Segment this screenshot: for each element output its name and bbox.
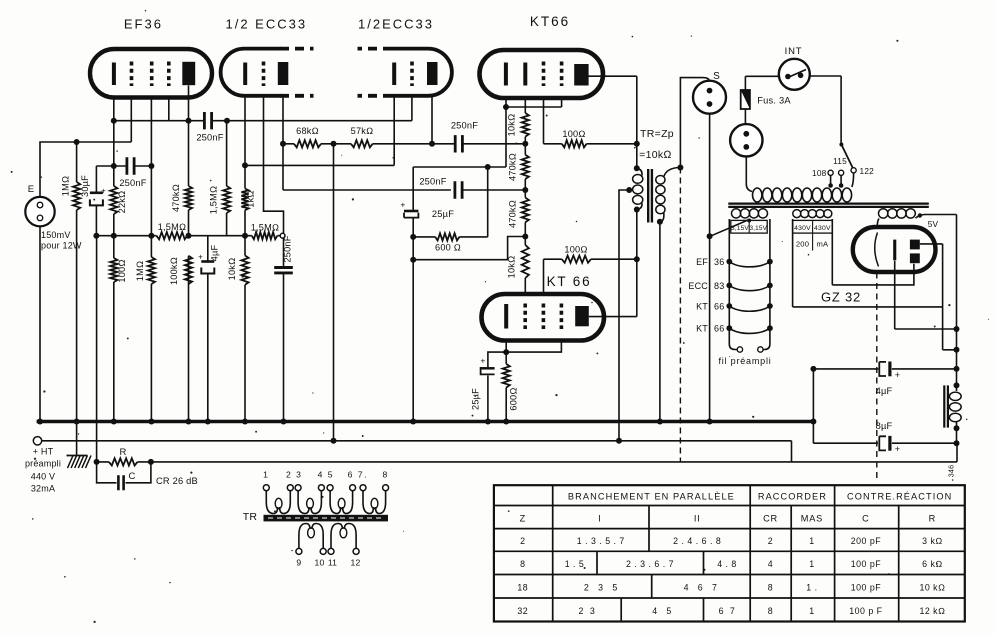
svg-text:+ HT: + HT — [33, 447, 54, 457]
resistor 100 ohm (KT66a screen) zigzag — [562, 140, 587, 147]
svg-text:32: 32 — [517, 606, 528, 616]
svg-text:250nF: 250nF — [283, 235, 293, 262]
svg-text:=10kΩ: =10kΩ — [639, 149, 672, 161]
svg-text:+: + — [198, 253, 203, 262]
resistor 1.5M vertical zigzag — [223, 186, 230, 213]
connection table frame — [494, 485, 965, 621]
resistor 470k zigzag — [185, 186, 192, 210]
electrolytic 25uF (KT66b) wire — [488, 352, 506, 421]
+HT line — [42, 441, 792, 462]
svg-text:470kΩ: 470kΩ — [508, 153, 518, 181]
svg-text:250nF: 250nF — [196, 133, 223, 143]
B+ dropper rail down to HT line — [333, 144, 335, 441]
svg-text:8: 8 — [768, 583, 773, 593]
tube 1/2 ECC33 (second) envelope dashed part — [358, 49, 393, 96]
430V label box — [793, 220, 833, 233]
resistor 22k zigzag — [110, 186, 117, 214]
svg-text:BRANCHEMENT EN PARALLÈLE: BRANCHEMENT EN PARALLÈLE — [568, 492, 735, 502]
node KT66a cathode — [503, 104, 509, 110]
KT66b anode — [575, 306, 589, 326]
EF36 grid 3 (dotted) — [167, 62, 171, 87]
svg-text:INT: INT — [785, 46, 803, 57]
TR primary section 2 — [295, 485, 301, 491]
svg-text:3 kΩ: 3 kΩ — [922, 536, 943, 546]
GZ32 filament arc — [875, 233, 879, 267]
svg-text:1: 1 — [263, 470, 269, 480]
svg-text:440 V: 440 V — [31, 472, 56, 482]
switch INT lever — [788, 70, 806, 78]
svg-text:E: E — [28, 184, 35, 195]
TR primary section 4 — [360, 485, 366, 491]
KT66a screen pin wire — [544, 98, 562, 144]
KT66b beam plates (dotted) — [560, 304, 564, 330]
5V winding right end to HT rail — [916, 215, 957, 386]
svg-text:115: 115 — [833, 156, 847, 166]
electrolytic 25uF (KT66a) — [404, 210, 418, 213]
TR core bar — [264, 515, 389, 522]
node 413-ground — [410, 419, 416, 425]
switch INT circle — [779, 59, 810, 90]
svg-text:250nF: 250nF — [119, 178, 146, 188]
svg-text:3,15V: 3,15V — [749, 225, 767, 232]
svg-text:TR=Zp: TR=Zp — [640, 128, 674, 140]
svg-text:préampli: préampli — [25, 459, 61, 469]
ECC33a plate rail — [283, 96, 451, 190]
electrolytic 30uF — [90, 192, 103, 195]
resistor 1M (second) zigzag — [148, 257, 155, 284]
coupling capacitor 250nF (to KT66b grid) line y=190 — [455, 181, 462, 198]
TR primary section 1 — [263, 485, 269, 491]
speaker line to socket S — [680, 78, 709, 168]
tap 108 wire — [830, 175, 832, 185]
svg-text:1/2 ECC33: 1/2 ECC33 — [226, 17, 308, 32]
node 250nF ground — [281, 419, 287, 425]
EF36 grid 1 (dotted) — [130, 62, 134, 87]
input jack E — [25, 197, 54, 226]
wire EF36 grid1 down to input wire — [130, 96, 132, 142]
output transformer primary loops — [633, 175, 643, 184]
svg-text:100 p F: 100 p F — [849, 606, 882, 616]
capacitor C wire — [97, 462, 151, 483]
secondary ground wire — [659, 222, 661, 421]
resistor 1.5M horizontal-2 zigzag — [252, 232, 277, 239]
svg-text:4µF: 4µF — [876, 386, 893, 396]
svg-text:RACCORDER: RACCORDER — [758, 492, 827, 502]
node 600ohm rise — [485, 164, 491, 170]
svg-text:30µF: 30µF — [80, 175, 90, 197]
node R right — [148, 459, 154, 465]
svg-text:6 kΩ: 6 kΩ — [922, 559, 943, 569]
svg-text:C: C — [862, 514, 869, 524]
wire socket to primary — [746, 157, 752, 192]
output transformer secondary bottom exit — [660, 213, 664, 222]
node 25uF-600 — [410, 234, 416, 240]
node grid terminal (open) — [280, 233, 285, 238]
resistor 470k lower wire — [524, 190, 526, 237]
ECC33a grid stair wire — [264, 96, 284, 233]
wire input bottom pin to ground bus — [39, 226, 41, 421]
tube GZ32 envelope — [853, 227, 936, 272]
node heater CT on S wire — [707, 233, 713, 239]
power transformer core — [728, 204, 929, 207]
tube 1/2 ECC33 (first) envelope dashed part — [280, 49, 314, 96]
svg-text:2 3: 2 3 — [579, 606, 596, 616]
node rail-plate — [186, 233, 192, 239]
svg-text:fil préampli: fil préampli — [718, 356, 771, 366]
svg-text:57kΩ: 57kΩ — [351, 126, 374, 136]
ECC33b plate pin wire — [431, 96, 433, 144]
primary tap to HT — [626, 187, 632, 193]
KT66a beam plates (dotted) — [560, 62, 564, 87]
cathode wire y=167 — [413, 166, 506, 168]
node 68k-57k junction (B+ feed) — [331, 141, 337, 147]
ground bus (thick) — [37, 420, 814, 423]
svg-text:4 6 7: 4 6 7 — [684, 583, 718, 593]
svg-text:4 . 8: 4 . 8 — [717, 559, 737, 569]
svg-text:2: 2 — [520, 536, 525, 546]
wire 100ohm to plate rail — [587, 143, 637, 145]
GZ32 cathode bar — [893, 240, 896, 261]
wire input top pin to grid line — [40, 142, 131, 197]
KT66a grid pin + 10k wire — [524, 98, 526, 144]
TR secondary section 2 — [328, 548, 334, 554]
svg-text:1,5MΩ: 1,5MΩ — [251, 223, 279, 233]
resistor 100 ohm zigzag — [110, 258, 117, 282]
svg-text:8: 8 — [382, 470, 388, 480]
input jack E pin top — [37, 202, 43, 208]
resistor 57k zigzag — [351, 140, 373, 147]
ECC33a cathode pin wire — [244, 96, 246, 165]
svg-text:4 5: 4 5 — [652, 606, 672, 616]
resistor 600 ohm zigzag — [435, 233, 459, 240]
svg-text:+: + — [400, 200, 405, 210]
svg-text:1kΩ: 1kΩ — [246, 190, 256, 207]
svg-text:25µF: 25µF — [471, 388, 481, 410]
EF36 screen rail x=151.4 — [150, 97, 152, 421]
secondary 430V winding loops — [793, 210, 801, 218]
svg-text:10kΩ: 10kΩ — [507, 114, 517, 137]
tap 115 wire — [840, 175, 842, 185]
wire INT left to fuse — [745, 76, 779, 90]
electrolytic 25uF (KT66a) wire — [412, 167, 414, 237]
svg-text:+: + — [480, 356, 485, 366]
resistor 470k upper wire — [524, 144, 526, 190]
svg-text:1 . 5: 1 . 5 — [565, 559, 585, 569]
resistor 1.5M horizontal-1 zigzag — [157, 232, 188, 239]
EF36 anode — [182, 62, 195, 85]
node y166 right — [148, 163, 154, 169]
svg-text:12 kΩ: 12 kΩ — [919, 606, 945, 616]
node input-ground — [37, 419, 43, 425]
tap terminal 115 — [839, 170, 844, 175]
resistor 1M (input grid leak) wire — [76, 142, 78, 421]
node cathode y120.7 — [111, 118, 117, 124]
svg-text:KT: KT — [696, 324, 708, 334]
node y259.7 — [410, 257, 416, 263]
svg-text:200: 200 — [796, 240, 809, 249]
svg-text:430V: 430V — [794, 225, 811, 232]
svg-text:1 .: 1 . — [806, 583, 817, 593]
resistor 600 ohm (KT66b) wire — [505, 352, 507, 421]
wire fuse to mains socket — [744, 109, 746, 124]
node 1M2 ground — [148, 419, 154, 425]
node cathode-ground — [111, 419, 117, 425]
resistor R zigzag — [109, 458, 138, 465]
node HT-primary tap — [616, 438, 622, 444]
node rail-cathode — [111, 233, 117, 239]
svg-text:+: + — [101, 187, 106, 196]
selector blade to 122 — [839, 143, 843, 147]
node KT66a grid coupling — [522, 141, 528, 147]
KT66a plate wire — [586, 76, 637, 168]
EF36 cathode rail x=113.8 — [113, 97, 115, 421]
bias rail y=235.7 — [96, 235, 280, 237]
cathode ground drop x=413 — [412, 237, 414, 421]
chassis ground symbol — [76, 423, 78, 455]
svg-text:4: 4 — [768, 559, 773, 569]
output transformer secondary loops — [656, 176, 665, 185]
node plate y120.7 — [186, 118, 192, 124]
svg-text:1,5MΩ: 1,5MΩ — [209, 186, 219, 214]
resistor 10k (KT66b grid) wire — [524, 237, 526, 294]
feedback line (dashed) from speaker to CR network — [679, 168, 681, 462]
heater CT wire — [710, 220, 749, 237]
power transformer primary winding loops — [753, 188, 762, 202]
svg-text:2: 2 — [768, 536, 773, 546]
KT66a grid bar — [523, 63, 527, 86]
EF36 plate rail x=188.5 — [188, 86, 190, 422]
svg-text:100kΩ: 100kΩ — [169, 257, 179, 285]
svg-text:346: 346 — [947, 465, 956, 478]
capacitor 250nF (screen bypass) — [127, 157, 134, 174]
svg-text:+: + — [895, 444, 900, 454]
dashed line below GZ32 — [876, 273, 878, 483]
choke terminals — [954, 382, 960, 388]
KT66a screen grid (dotted) — [542, 62, 546, 87]
tube 1/2 ECC33 (second) envelope solid part — [392, 49, 452, 96]
node HT-B+ feed — [331, 438, 337, 444]
electrolytic 4uF — [201, 260, 214, 263]
wire y=165.4 to ECC33b cathode — [245, 96, 394, 165]
KT66b screen wire + 100 ohm — [544, 259, 562, 293]
GZ32 anode1 wire to rail — [920, 244, 957, 350]
svg-text:100 pF: 100 pF — [851, 583, 882, 593]
GZ32 anode square 1 — [910, 240, 920, 250]
TR primary section 3 — [327, 485, 333, 491]
secondary 5V winding loops — [879, 209, 888, 218]
svg-text:25µF: 25µF — [432, 209, 454, 219]
tube KT66 (upper) envelope — [480, 50, 604, 98]
node mid 470k — [522, 187, 528, 193]
svg-text:32mA: 32mA — [31, 484, 55, 494]
svg-text:10kΩ: 10kΩ — [227, 258, 237, 281]
electrolytic 4uF filter — [879, 362, 886, 376]
svg-text:100Ω: 100Ω — [564, 245, 587, 255]
ECC33b cathode bar — [392, 63, 396, 86]
resistor 10k zigzag — [241, 256, 248, 285]
KT66b grid (dotted) — [523, 304, 527, 330]
output transformer primary entry — [634, 165, 640, 171]
input jack E pin bottom — [37, 215, 43, 221]
svg-text:2 . 3 . 6 . 7: 2 . 3 . 6 . 7 — [626, 559, 674, 569]
svg-text:68kΩ: 68kΩ — [296, 126, 319, 136]
coupling capacitor 250nF (to KT66a grid) — [455, 135, 462, 152]
svg-text:9: 9 — [296, 558, 301, 568]
node 470k-10k lower junction — [522, 234, 528, 240]
electrolytic 8uF filter — [879, 436, 886, 450]
430V right plate wire — [832, 219, 914, 285]
4uF line — [813, 368, 956, 370]
coupling capacitor 250nF (EF36 plate to ECC33 grid) — [204, 112, 211, 129]
HT rail right segment — [956, 385, 958, 443]
output transformer core — [648, 169, 652, 223]
svg-text:TR: TR — [243, 511, 258, 523]
filter choke loops — [949, 392, 961, 400]
heater chart right rail — [763, 219, 770, 350]
resistor 100k zigzag — [185, 256, 192, 284]
svg-text:600 Ω: 600 Ω — [435, 243, 461, 253]
svg-text:66: 66 — [714, 324, 724, 334]
EF36 cathode bar — [112, 63, 116, 86]
terminal fil right — [758, 347, 763, 352]
table column lines — [552, 485, 554, 621]
tap terminal 108 — [828, 170, 833, 175]
svg-text:22kΩ: 22kΩ — [117, 191, 127, 214]
GZ32 cathode bar pin down to rail — [895, 261, 957, 329]
TR secondary section 1 — [296, 548, 302, 554]
fuse Fus.3A — [741, 90, 750, 109]
svg-text:11: 11 — [328, 558, 337, 568]
svg-text:II: II — [694, 514, 701, 524]
node plate y143.8 — [280, 141, 286, 147]
svg-text:250nF: 250nF — [451, 121, 478, 131]
svg-text:MAS: MAS — [801, 514, 823, 524]
CR feedback line — [97, 443, 957, 462]
svg-text:2 3 5: 2 3 5 — [584, 583, 618, 593]
node grid-leak y120.7 — [224, 118, 230, 124]
svg-text:ECC: ECC — [688, 281, 708, 291]
svg-text:470kΩ: 470kΩ — [171, 184, 181, 212]
mains socket — [730, 124, 762, 156]
KT66a anode — [574, 64, 588, 86]
node 1M ground — [74, 419, 80, 425]
socket S — [693, 81, 726, 114]
node ECC33b plate — [429, 141, 435, 147]
node rail-1k/10k — [242, 233, 248, 239]
svg-text:mA: mA — [817, 240, 830, 249]
filter choke core — [944, 385, 948, 427]
KT66a cathode bar — [504, 63, 508, 86]
svg-text:2 . 4 . 6 . 8: 2 . 4 . 6 . 8 — [673, 536, 721, 546]
svg-text:C: C — [128, 471, 135, 482]
KT66b cathode bar — [504, 304, 508, 329]
svg-text:430V: 430V — [814, 225, 831, 232]
resistor 470k lower zigzag — [522, 198, 529, 223]
svg-text:100 pF: 100 pF — [851, 559, 882, 569]
svg-text:KT66: KT66 — [530, 14, 570, 29]
node 4uF ground — [205, 419, 211, 425]
svg-text:S: S — [713, 71, 720, 82]
resistor 470k upper zigzag — [522, 155, 529, 179]
resistor 1M zigzag — [73, 182, 80, 210]
svg-text:1 . 3 . 5 . 7: 1 . 3 . 5 . 7 — [577, 536, 625, 546]
3.15V label box — [731, 220, 767, 233]
svg-text:100Ω: 100Ω — [117, 259, 127, 282]
KT66b screen (dotted) — [542, 304, 546, 330]
electrolytic 30uF wire — [95, 166, 97, 236]
svg-text:600Ω: 600Ω — [509, 387, 519, 410]
node KT66b cathode — [503, 349, 509, 355]
svg-text:R: R — [119, 447, 126, 458]
svg-text:10 kΩ: 10 kΩ — [919, 583, 945, 593]
svg-text:100Ω: 100Ω — [562, 129, 585, 139]
svg-text:200 pF: 200 pF — [851, 536, 882, 546]
svg-text:12: 12 — [351, 558, 361, 568]
svg-text:122: 122 — [860, 166, 875, 176]
svg-text:CONTRE.RÉACTION: CONTRE.RÉACTION — [847, 492, 952, 502]
capacitor 250nF vertical plates — [274, 268, 293, 273]
node R left — [94, 459, 100, 465]
svg-text:1/2ECC33: 1/2ECC33 — [358, 17, 434, 32]
resistor 600 ohm (KT66b) zigzag — [503, 364, 510, 388]
KT66b beam plate strap — [506, 341, 561, 353]
svg-text:8µF: 8µF — [876, 421, 893, 431]
wire 100ohm-b to plate rail — [591, 258, 637, 260]
electrolytic 25uF (KT66b) — [481, 367, 494, 370]
svg-text:5V: 5V — [928, 219, 939, 229]
resistor 68k zigzag — [294, 140, 321, 147]
tube 1/2 ECC33 (first) envelope solid part — [221, 49, 281, 96]
svg-text:4µF: 4µF — [210, 245, 220, 262]
svg-text:1,5MΩ: 1,5MΩ — [158, 222, 186, 232]
svg-text:8: 8 — [520, 559, 525, 569]
svg-text:+: + — [895, 370, 900, 380]
ECC33b anode — [427, 62, 438, 85]
svg-text:4 5: 4 5 — [318, 470, 334, 480]
resistor 1.5M vertical (ECC33a grid leak) wire — [226, 121, 228, 236]
svg-text:2 3: 2 3 — [286, 470, 302, 480]
tube EF36 envelope — [90, 49, 212, 98]
resistor 10k (ECC33b cathode) wire — [244, 236, 246, 421]
ECC33a grid (dotted) — [262, 62, 266, 87]
svg-text:EF36: EF36 — [124, 17, 163, 32]
wire EF36 pins bus y=120.7 (cathode-suppressor / plate coupling) — [114, 120, 412, 122]
svg-text:KT 66: KT 66 — [547, 274, 592, 289]
wire ECC33b grid rise — [411, 96, 413, 121]
anode load line y=143.8 — [283, 143, 526, 145]
svg-text:470kΩ: 470kΩ — [508, 200, 518, 228]
svg-text:1: 1 — [809, 536, 814, 546]
node ultralinear tap lower — [634, 256, 640, 262]
node 10k ground — [242, 419, 248, 425]
EF36 suppressor pin line — [168, 97, 170, 121]
KT66b cathode pin wire — [505, 341, 507, 353]
node cathode-1k — [242, 162, 248, 168]
resistor 1k wire — [244, 165, 246, 235]
node rail-30uF — [93, 233, 99, 239]
node y166 cathode — [111, 163, 117, 169]
wire INT right to voltage selector — [810, 76, 841, 144]
terminal fil left — [737, 347, 742, 352]
resistor 100 ohm (KT66b screen) zigzag — [562, 256, 591, 263]
5V winding left end into GZ32 filament — [877, 219, 879, 227]
svg-text:8: 8 — [768, 606, 773, 616]
svg-text:Fus. 3A: Fus. 3A — [757, 96, 791, 106]
svg-text:R: R — [929, 514, 936, 524]
KT66a cathode strap under tube — [506, 98, 562, 107]
8uF line right — [892, 442, 957, 444]
svg-text:250nF: 250nF — [419, 177, 446, 187]
